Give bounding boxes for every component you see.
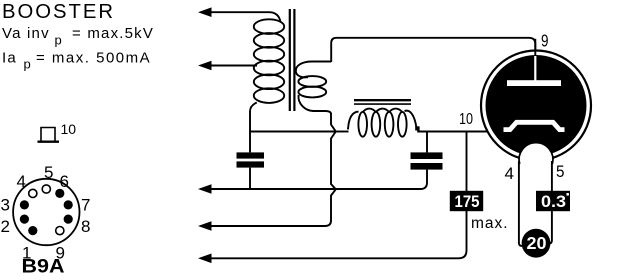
- wire C2 top lead: [426, 132, 428, 153]
- svg-text:BOOSTER: BOOSTER: [2, 0, 115, 23]
- svg-text:B9A: B9A: [22, 257, 65, 278]
- pin 2 (filled): [20, 215, 29, 224]
- wire C1 bottom lead: [249, 168, 251, 189]
- voltage box 175: [450, 191, 483, 211]
- svg-text:max.: max.: [471, 215, 509, 232]
- terminal arrow 3: [198, 184, 212, 194]
- pin 6 (filled): [55, 189, 64, 198]
- tube V1 envelope: [481, 51, 591, 161]
- terminal arrow 5: [198, 254, 212, 264]
- anode lead inside (white): [534, 56, 536, 81]
- wire anode lead from node 9: [534, 39, 536, 58]
- pin 8 (filled): [64, 215, 73, 224]
- heater lead pin 5: [549, 161, 552, 244]
- svg-text:175: 175: [455, 193, 480, 211]
- wire arrow1 to transformer primary top: [209, 12, 281, 22]
- pin 5 (hollow): [42, 185, 50, 193]
- pin 4 (hollow): [29, 189, 37, 197]
- inductor L winding: [348, 109, 416, 137]
- capacitor C1: [237, 152, 265, 158]
- pin 7 (filled): [64, 200, 73, 209]
- B9A base outline: [13, 179, 79, 245]
- heater exit arch (outline): [519, 143, 553, 164]
- svg-text:10: 10: [61, 121, 77, 137]
- wire secondary top to anode (node 9): [331, 38, 535, 62]
- svg-text:3: 3: [1, 196, 10, 215]
- inductor L core: [354, 99, 411, 101]
- terminal arrow 2 (primary tap): [198, 61, 212, 71]
- svg-text:10: 10: [459, 111, 473, 128]
- transformer core: [289, 9, 291, 111]
- common rail wire to arrow 3: [209, 188, 336, 190]
- svg-text:5: 5: [44, 163, 53, 182]
- svg-text:6: 6: [60, 172, 69, 191]
- transformer T1 secondary winding: [296, 62, 331, 115]
- current box 0.3: [536, 191, 570, 211]
- wire inductor to cathode (node 10): [417, 131, 499, 133]
- svg-text:0.3: 0.3: [541, 193, 566, 211]
- svg-text:8: 8: [81, 217, 90, 236]
- cathode: [504, 122, 565, 129]
- wire node10 down through 175 box to arrow 5: [209, 132, 467, 258]
- terminal arrow 4: [198, 221, 212, 231]
- svg-text:2: 2: [1, 217, 10, 236]
- wire jog to inductor: [336, 131, 349, 133]
- wire arrow2 tap: [209, 65, 257, 67]
- svg-text:7: 7: [81, 196, 90, 215]
- pin 1 (filled): [28, 226, 37, 235]
- svg-text:9: 9: [541, 31, 549, 51]
- pin 3 (filled): [20, 200, 29, 209]
- wire secondary bottom vertical with crossover jogs, to arrow 4: [209, 113, 336, 226]
- pin 9 (hollow): [56, 227, 64, 235]
- wire main node: primary bottom / C1 top to inductor: [250, 131, 336, 133]
- heater lead pin 4: [519, 161, 522, 246]
- wire C2 bottom lead to common rail: [336, 170, 428, 189]
- anode plate: [507, 80, 561, 86]
- top-cap symbol: [41, 128, 55, 142]
- svg-text:4: 4: [505, 164, 515, 183]
- tube internal black body: [486, 55, 587, 156]
- junction blob at inductor output: [415, 126, 419, 130]
- capacitor C2: [411, 152, 443, 159]
- svg-text:5: 5: [556, 162, 565, 181]
- terminal arrow 1 (top): [198, 7, 212, 17]
- transformer T1 primary winding: [254, 19, 284, 103]
- svg-text:4: 4: [17, 172, 26, 191]
- heater circle 20: [522, 229, 551, 258]
- svg-text:20: 20: [527, 233, 547, 253]
- heater exit arch (fill): [519, 143, 553, 164]
- wire primary bottom lead: [250, 103, 257, 153]
